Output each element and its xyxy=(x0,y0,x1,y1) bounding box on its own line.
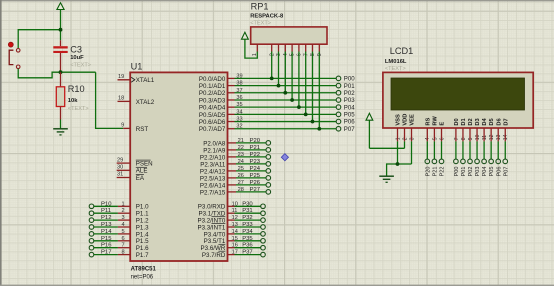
pin EA (31) xyxy=(117,172,145,182)
resistor R10 xyxy=(56,72,64,119)
LCD1 property text xyxy=(385,66,406,72)
svg-text:18: 18 xyxy=(118,96,124,102)
junction RP1-6/P04 xyxy=(297,105,301,109)
svg-text:P21: P21 xyxy=(433,167,439,177)
svg-text:XTAL1: XTAL1 xyxy=(136,77,155,84)
svg-text:P23: P23 xyxy=(250,159,261,165)
svg-text:P26: P26 xyxy=(250,180,261,186)
svg-text:P12: P12 xyxy=(101,215,111,221)
terminal P03 (LCD side) xyxy=(475,159,481,176)
RP1 pin 3 xyxy=(276,44,282,56)
pin PSEN (29) xyxy=(117,157,153,167)
svg-text:P05: P05 xyxy=(489,167,495,177)
wire P02 net xyxy=(235,92,337,94)
label LCD1 xyxy=(390,46,414,56)
svg-text:P0.1/AD1: P0.1/AD1 xyxy=(199,83,226,90)
svg-text:P15: P15 xyxy=(101,236,112,242)
pin P1.0 (1) with terminal P10 xyxy=(89,201,149,210)
junction C3 / R10 / RST xyxy=(59,70,63,74)
svg-text:P2.3/A11: P2.3/A11 xyxy=(200,161,226,168)
terminal P04 xyxy=(336,104,355,111)
pin P1.3 (4) with terminal P13 xyxy=(89,222,149,231)
RP1 pin 9 xyxy=(317,44,323,56)
wire VSS/VEE to ground xyxy=(387,164,412,176)
pin P0.7/AD7 (32) xyxy=(199,124,243,133)
svg-text:12: 12 xyxy=(489,134,495,140)
svg-text:P04: P04 xyxy=(344,104,355,111)
pin P2.3/A11 (24) with terminal P23 xyxy=(200,159,270,168)
svg-text:D1: D1 xyxy=(461,118,467,125)
wire LCD D4 to terminal P04 xyxy=(483,141,485,159)
wire P05 net xyxy=(235,113,337,115)
wire VEE down xyxy=(411,141,413,164)
svg-text:P04: P04 xyxy=(482,167,488,177)
svg-text:P2.7/A15: P2.7/A15 xyxy=(200,189,226,196)
pin P0.5/AD5 (34) xyxy=(199,109,243,118)
svg-text:P36: P36 xyxy=(242,243,253,249)
pin P1.7 (8) with terminal P17 xyxy=(89,250,149,259)
pin P0.4/AD4 (35) xyxy=(199,102,243,111)
power symbol VCC (top-left) xyxy=(57,3,64,10)
pin P1.6 (7) with terminal P16 xyxy=(89,243,149,252)
ground (below R10) xyxy=(53,129,68,135)
pin RST (9) xyxy=(121,123,148,133)
pin P1.4 (5) with terminal P14 xyxy=(89,229,149,238)
wire LCD D2 to terminal P02 xyxy=(469,141,471,159)
svg-text:P0.6/AD6: P0.6/AD6 xyxy=(199,119,226,126)
svg-text:R10: R10 xyxy=(68,84,85,94)
junction RP1-9/P07 xyxy=(317,127,321,131)
svg-text:<TEXT>: <TEXT> xyxy=(70,63,91,69)
terminal P01 xyxy=(336,83,355,90)
junction VSS/gnd wire xyxy=(396,162,400,166)
svg-text:P02: P02 xyxy=(344,90,355,97)
junction RP1-2/P00 xyxy=(270,77,274,81)
svg-text:RW: RW xyxy=(433,116,439,126)
RP1 pin 4 xyxy=(283,44,289,56)
RP1 pin 8 xyxy=(310,44,316,56)
pin P0.3/AD3 (36) xyxy=(199,95,243,104)
resistor pack RP1 body xyxy=(251,27,327,44)
wire RP1 pin 3 to P01 xyxy=(278,52,280,86)
svg-text:<TEXT>: <TEXT> xyxy=(385,66,406,72)
terminal P02 (LCD side) xyxy=(468,159,474,176)
pin P0.0/AD0 (39) xyxy=(199,73,243,82)
svg-text:30: 30 xyxy=(117,165,123,171)
svg-text:14: 14 xyxy=(503,134,509,140)
svg-text:XTAL2: XTAL2 xyxy=(136,99,155,106)
label RP1 xyxy=(251,1,269,11)
svg-text:LCD1: LCD1 xyxy=(390,46,414,56)
svg-text:P16: P16 xyxy=(101,243,112,249)
pin P0.2/AD2 (37) xyxy=(199,88,243,97)
svg-text:3: 3 xyxy=(409,137,415,140)
label C3 xyxy=(70,44,82,54)
ground (LCD) xyxy=(379,176,394,182)
svg-text:RESPACK-8: RESPACK-8 xyxy=(250,14,284,20)
svg-text:VDD: VDD xyxy=(403,114,409,126)
LCD pin 11 D4 xyxy=(482,117,488,141)
wire RP1 pin 7 to P05 xyxy=(305,52,307,115)
svg-text:P05: P05 xyxy=(344,112,355,119)
wire RP1 pin 4 to P02 xyxy=(284,52,286,93)
svg-text:P20: P20 xyxy=(250,138,261,144)
svg-text:E: E xyxy=(440,122,446,126)
svg-text:P34: P34 xyxy=(242,229,253,235)
svg-text:2: 2 xyxy=(121,208,124,214)
value 10uF xyxy=(70,55,84,61)
svg-text:10uF: 10uF xyxy=(70,55,84,61)
svg-text:P2.6/A14: P2.6/A14 xyxy=(200,182,226,189)
svg-text:8: 8 xyxy=(461,137,467,140)
terminal P06 (LCD side) xyxy=(496,159,502,176)
svg-text:31: 31 xyxy=(117,172,123,178)
pin P3.3/INT1 (13) with terminal P33 xyxy=(197,222,265,231)
value 10k xyxy=(68,98,78,104)
svg-text:6: 6 xyxy=(439,137,445,140)
wire R10 to ground xyxy=(60,120,62,129)
terminal P21 (LCD side) xyxy=(432,159,438,176)
svg-text:D3: D3 xyxy=(475,118,481,125)
junction button-top / C3 xyxy=(59,28,63,32)
svg-text:7: 7 xyxy=(454,137,460,140)
svg-text:P25: P25 xyxy=(250,173,261,179)
svg-text:P06: P06 xyxy=(496,167,502,177)
svg-text:7: 7 xyxy=(121,243,124,249)
svg-text:P02: P02 xyxy=(468,167,474,177)
wire LCD RS to terminal P20 xyxy=(426,141,428,159)
net=P06 text xyxy=(131,274,154,280)
svg-text:4: 4 xyxy=(425,137,431,140)
pin P2.0/A8 (21) with terminal P20 xyxy=(203,138,270,147)
LCD screen xyxy=(391,78,525,110)
terminal P03 xyxy=(336,97,355,104)
svg-text:LM016L: LM016L xyxy=(385,59,407,65)
svg-text:3: 3 xyxy=(121,215,124,221)
svg-text:P2.4/A12: P2.4/A12 xyxy=(200,168,226,175)
junction RP1-8/P06 xyxy=(311,120,315,124)
LCD pin 9 D2 xyxy=(468,118,474,141)
power symbol (RP1) xyxy=(242,32,249,39)
svg-text:net=P06: net=P06 xyxy=(131,274,154,280)
svg-text:2: 2 xyxy=(402,137,408,140)
terminal P02 xyxy=(336,90,355,97)
pin XTAL2 (18) xyxy=(118,96,155,106)
svg-text:P03: P03 xyxy=(475,167,481,177)
svg-text:8: 8 xyxy=(121,250,124,256)
op: MCU U1 AT89C51 body xyxy=(130,72,227,261)
capacitor C3 xyxy=(53,40,67,72)
terminal P05 (LCD side) xyxy=(489,159,495,176)
svg-text:P2.2/A10: P2.2/A10 xyxy=(200,154,226,161)
svg-text:P2.0/A8: P2.0/A8 xyxy=(203,140,226,147)
svg-text:C3: C3 xyxy=(70,44,82,54)
pin P1.5 (6) with terminal P15 xyxy=(89,236,149,245)
svg-text:19: 19 xyxy=(118,74,124,80)
svg-text:P00: P00 xyxy=(344,76,355,83)
svg-text:<TEXT>: <TEXT> xyxy=(68,106,89,112)
pin P2.4/A12 (25) with terminal P24 xyxy=(200,166,271,175)
svg-text:P2.5/A13: P2.5/A13 xyxy=(200,175,226,182)
svg-text:P0.2/AD2: P0.2/AD2 xyxy=(199,90,226,97)
junction RP1-5/P03 xyxy=(290,98,294,102)
svg-text:4: 4 xyxy=(121,222,124,228)
svg-text:VSS: VSS xyxy=(396,114,402,126)
wire RP1 pin 5 to P03 xyxy=(291,52,293,100)
wire P03 net xyxy=(235,99,337,101)
svg-text:D4: D4 xyxy=(482,117,488,125)
svg-text:P10: P10 xyxy=(101,201,112,207)
terminal P01 (LCD side) xyxy=(461,159,467,176)
terminal P07 (LCD side) xyxy=(503,159,509,176)
svg-text:P2.1/A9: P2.1/A9 xyxy=(203,147,226,154)
svg-text:10k: 10k xyxy=(68,98,78,104)
pin P3.4/T0 (14) with terminal P34 xyxy=(204,229,266,238)
svg-text:D6: D6 xyxy=(496,118,502,125)
terminal P06 xyxy=(336,119,355,126)
svg-text:1: 1 xyxy=(395,137,401,140)
RP1 pin 6 xyxy=(297,44,303,56)
svg-text:9: 9 xyxy=(468,137,474,140)
svg-text:P03: P03 xyxy=(344,97,355,104)
wire RP1 pin 9 to P07 xyxy=(318,52,320,129)
wire RST net xyxy=(96,72,124,128)
RP1 pin 5 xyxy=(290,44,296,56)
LCD pin 8 D1 xyxy=(461,118,467,141)
terminal P05 xyxy=(336,112,355,119)
wire LCD D7 to terminal P07 xyxy=(504,141,506,159)
wire P04 net xyxy=(235,106,337,108)
svg-text:P27: P27 xyxy=(250,187,260,193)
pin P3.7/RD (17) with terminal P37 xyxy=(202,250,265,259)
svg-text:EA: EA xyxy=(136,175,145,182)
svg-text:13: 13 xyxy=(496,134,502,140)
svg-text:P13: P13 xyxy=(101,222,112,228)
svg-text:RS: RS xyxy=(425,117,431,125)
svg-text:P22: P22 xyxy=(440,167,446,177)
pin ALE (30) xyxy=(117,165,148,175)
wire VSS down xyxy=(397,141,399,164)
svg-text:P01: P01 xyxy=(461,167,467,177)
svg-text:P3.7/RD: P3.7/RD xyxy=(202,252,226,259)
pin P1.2 (3) with terminal P12 xyxy=(89,215,149,224)
pin P2.1/A9 (22) with terminal P21 xyxy=(203,145,270,154)
pin P3.0/RXD (10) with terminal P30 xyxy=(198,201,266,210)
svg-text:P11: P11 xyxy=(101,208,111,214)
wire LCD E to terminal P22 xyxy=(441,141,443,159)
value RESPACK-8 xyxy=(250,14,284,20)
svg-text:P22: P22 xyxy=(250,152,260,158)
svg-text:P07: P07 xyxy=(503,167,509,177)
svg-text:PSEN: PSEN xyxy=(136,161,153,168)
terminal P07 xyxy=(336,126,355,133)
svg-text:D0: D0 xyxy=(454,118,460,125)
wire LCD D6 to terminal P06 xyxy=(497,141,499,159)
junction RP1-4/P02 xyxy=(283,91,287,95)
svg-text:D5: D5 xyxy=(489,118,495,125)
LCD pin 3 VEE xyxy=(409,114,415,141)
wire button top xyxy=(18,30,60,49)
junction RP1-3/P01 xyxy=(277,84,281,88)
wire VDD to power xyxy=(369,120,404,148)
svg-text:P01: P01 xyxy=(344,83,355,90)
wire P06 net xyxy=(235,121,337,123)
wire button bottom to junction xyxy=(18,69,95,78)
svg-text:P20: P20 xyxy=(425,167,431,177)
svg-text:10: 10 xyxy=(475,134,481,140)
wire RP1 pin 6 to P04 xyxy=(298,52,300,108)
svg-text:6: 6 xyxy=(121,236,124,242)
terminal P22 (LCD side) xyxy=(439,159,445,176)
svg-text:P0.0/AD0: P0.0/AD0 xyxy=(199,76,226,83)
C3 property text xyxy=(70,63,91,69)
svg-text:P14: P14 xyxy=(101,229,112,235)
svg-text:U1: U1 xyxy=(131,61,143,71)
wire LCD D5 to terminal P05 xyxy=(490,141,492,159)
wire RP1 pin 8 to P06 xyxy=(312,52,314,122)
pin P2.5/A13 (26) with terminal P25 xyxy=(200,173,271,182)
svg-text:1: 1 xyxy=(121,201,124,207)
pin P3.5/T1 (15) with terminal P35 xyxy=(204,236,266,245)
wire P01 net xyxy=(235,85,337,87)
LCD pin 7 D0 xyxy=(454,118,460,141)
svg-text:5: 5 xyxy=(121,229,124,235)
wire LCD RW to terminal P21 xyxy=(433,141,435,159)
pin P0.6/AD6 (33) xyxy=(199,117,243,126)
LCD pin 1 VSS xyxy=(395,114,401,141)
LCD pin 5 RW xyxy=(432,116,438,142)
LCD pin 4 RS xyxy=(425,117,431,141)
svg-text:AT89C51: AT89C51 xyxy=(131,267,157,273)
svg-text:11: 11 xyxy=(482,135,488,140)
svg-text:P0.3/AD3: P0.3/AD3 xyxy=(199,97,226,104)
pin P3.6/WR (16) with terminal P36 xyxy=(201,243,266,252)
pin P0.1/AD1 (38) xyxy=(199,81,243,90)
LCD pin 2 VDD xyxy=(402,114,408,142)
svg-text:5: 5 xyxy=(432,137,438,140)
LCD pin 10 D3 xyxy=(475,118,481,141)
svg-text:P0.7/AD7: P0.7/AD7 xyxy=(199,126,226,133)
pin P2.2/A10 (23) with terminal P22 xyxy=(200,152,271,161)
pin XTAL1 (19) xyxy=(118,74,155,84)
svg-text:P06: P06 xyxy=(344,119,355,126)
pin P1.1 (2) with terminal P11 xyxy=(89,208,149,217)
pin P3.2/INT0 (12) with terminal P32 xyxy=(197,215,265,224)
LCD pin 13 D6 xyxy=(496,118,502,141)
svg-text:P21: P21 xyxy=(250,145,260,151)
LCD pin 14 D7 xyxy=(503,118,509,141)
label U1 xyxy=(131,61,143,71)
terminal P00 (LCD side) xyxy=(454,159,460,176)
junction RP1-7/P05 xyxy=(304,112,308,116)
svg-text:ALE: ALE xyxy=(136,168,148,175)
svg-text:P33: P33 xyxy=(242,222,253,228)
power symbol (LCD VDD) xyxy=(366,113,373,120)
wire LCD D1 to terminal P01 xyxy=(462,141,464,159)
RP1 pin 1 (common) xyxy=(252,44,258,56)
svg-text:P1.7: P1.7 xyxy=(136,252,149,259)
wire power to C3 xyxy=(60,10,62,41)
origin marker (blue diamond) xyxy=(281,154,288,161)
svg-text:29: 29 xyxy=(117,157,123,163)
terminal P20 (LCD side) xyxy=(425,159,431,176)
value AT89C51 xyxy=(131,267,157,273)
svg-text:9: 9 xyxy=(121,123,124,129)
wire RP1 pin 2 to P00 xyxy=(271,52,273,79)
svg-text:P24: P24 xyxy=(250,166,261,172)
label R10 xyxy=(68,84,85,94)
svg-text:P32: P32 xyxy=(242,215,252,221)
wire P07 net xyxy=(235,128,337,130)
svg-text:P07: P07 xyxy=(344,126,355,133)
terminal P04 (LCD side) xyxy=(482,159,488,176)
svg-text:VEE: VEE xyxy=(410,114,416,126)
value LM016L xyxy=(385,59,407,65)
svg-text:D2: D2 xyxy=(468,118,474,125)
wire LCD D0 to terminal P00 xyxy=(455,141,457,159)
svg-text:RST: RST xyxy=(136,126,149,133)
RP1 pin 2 xyxy=(269,44,275,56)
wire RP1 common to power xyxy=(245,39,257,58)
svg-text:RP1: RP1 xyxy=(251,1,269,11)
pin P2.7/A15 (28) with terminal P27 xyxy=(200,187,271,196)
wire LCD D3 to terminal P03 xyxy=(476,141,478,159)
svg-text:P0.4/AD4: P0.4/AD4 xyxy=(199,105,226,112)
RP1 property text xyxy=(250,20,271,26)
svg-text:P00: P00 xyxy=(454,167,460,177)
LCD LM016L body xyxy=(383,72,533,128)
svg-text:P31: P31 xyxy=(242,208,252,214)
svg-text:D7: D7 xyxy=(503,118,509,125)
LCD pin 6 E xyxy=(439,122,445,142)
pin P3.1/TXD (11) with terminal P31 xyxy=(198,208,265,217)
svg-text:P30: P30 xyxy=(242,201,253,207)
LCD pin 12 D5 xyxy=(489,118,495,141)
RP1 pin 7 xyxy=(303,44,309,56)
terminal P00 xyxy=(336,76,355,83)
svg-text:P35: P35 xyxy=(242,236,253,242)
svg-text:P0.5/AD5: P0.5/AD5 xyxy=(199,112,226,119)
wire P00 net xyxy=(235,77,337,79)
svg-text:P37: P37 xyxy=(242,250,252,256)
button (push button) xyxy=(8,42,20,69)
svg-text:<TEXT>: <TEXT> xyxy=(250,20,271,26)
svg-text:P17: P17 xyxy=(101,250,111,256)
pin P2.6/A14 (27) with terminal P26 xyxy=(200,180,271,189)
R10 property text xyxy=(68,106,89,112)
